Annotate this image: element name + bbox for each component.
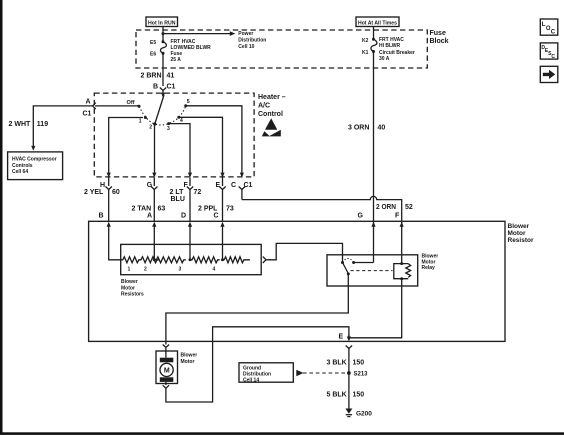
switch entry arrow at pin B — [161, 93, 165, 98]
svg-text:G: G — [358, 212, 364, 219]
svg-text:HVAC Compressor: HVAC Compressor — [12, 157, 57, 163]
svg-text:C: C — [551, 54, 555, 60]
svg-text:5: 5 — [187, 99, 190, 105]
svg-text:C: C — [231, 182, 236, 189]
svg-text:Hot In RUN: Hot In RUN — [148, 20, 176, 26]
fan switch contact 2 (wiper) — [153, 122, 156, 125]
svg-text:F: F — [395, 212, 400, 219]
svg-text:K2: K2 — [362, 38, 369, 44]
svg-text:M: M — [164, 368, 170, 375]
svg-text:Motor: Motor — [508, 230, 527, 237]
wire 2 YEL 60 pin H to resistor pin B — [108, 178, 110, 187]
relay blade — [343, 263, 349, 274]
svg-text:60: 60 — [112, 189, 120, 196]
svg-text:Cell 10: Cell 10 — [238, 44, 254, 50]
motor brush top — [160, 358, 174, 363]
resistor pack box — [121, 244, 262, 274]
svg-text:Resistor: Resistor — [508, 237, 534, 244]
svg-text:5 BLK: 5 BLK — [327, 392, 347, 399]
icon box arrow — [540, 66, 558, 82]
svg-text:Blower: Blower — [181, 353, 198, 359]
svg-text:Hot At All Times: Hot At All Times — [358, 20, 397, 26]
svg-text:4: 4 — [213, 267, 216, 273]
blower motor box — [156, 351, 178, 384]
svg-text:C1: C1 — [167, 83, 176, 90]
svg-text:2: 2 — [149, 125, 152, 131]
wire contact4 to pin E — [179, 117, 223, 176]
svg-text:D: D — [181, 212, 186, 219]
svg-text:2 ORN: 2 ORN — [376, 204, 396, 211]
svg-text:63: 63 — [158, 206, 166, 213]
Hot In RUN label box — [146, 17, 178, 27]
svg-text:2 LT: 2 LT — [170, 189, 185, 196]
svg-text:B: B — [153, 83, 158, 90]
blower motor resistor box — [89, 221, 505, 341]
wire 2 ORN 52 pin C to relay pin F (with hop over ORN wire) — [241, 190, 243, 200]
wire pin A tap — [153, 226, 155, 260]
svg-text:C: C — [214, 212, 219, 219]
wire arrow to Power Distribution — [163, 33, 231, 35]
resistor chain R1-R4 — [121, 257, 159, 263]
fan switch contact Off — [138, 105, 141, 108]
svg-text:73: 73 — [226, 206, 234, 213]
wire motor return to E junction — [166, 327, 349, 402]
svg-text:Motor: Motor — [121, 285, 135, 291]
svg-text:Off: Off — [127, 100, 135, 106]
wiper travel dotted arc — [139, 106, 186, 125]
entry arrows at box top — [107, 222, 111, 227]
svg-text:3 BLK: 3 BLK — [327, 360, 347, 367]
arrows at heater box bottom edge — [107, 173, 111, 178]
relay fixed contact — [352, 261, 355, 264]
wire relay blade output to blower motor — [166, 274, 348, 345]
Hot At All Times label box — [356, 17, 399, 27]
svg-text:H: H — [100, 182, 105, 189]
motor brush bottom — [160, 377, 174, 382]
svg-text:1: 1 — [139, 119, 142, 125]
tap node A — [153, 258, 156, 261]
svg-text:2 BRN: 2 BRN — [141, 72, 162, 79]
wire 2 TAN 63 pin G to resistor pin A — [153, 178, 155, 187]
wire out of motor — [165, 382, 167, 385]
svg-text:Fuse: Fuse — [430, 30, 446, 37]
dashed link to ground distribution — [296, 370, 303, 376]
icon box DESC — [540, 43, 558, 59]
wire resistor output to relay common — [266, 243, 343, 261]
HVAC compressor controls box — [8, 152, 63, 180]
fuse block dashed box — [136, 30, 427, 68]
svg-text:2 YEL: 2 YEL — [84, 189, 104, 196]
svg-text:41: 41 — [167, 72, 175, 79]
relay coil — [394, 264, 411, 279]
svg-text:Relay: Relay — [422, 265, 436, 271]
svg-text:Control: Control — [258, 111, 283, 118]
svg-text:E5: E5 — [150, 40, 156, 46]
svg-text:B: B — [99, 212, 104, 219]
svg-text:3: 3 — [179, 267, 182, 273]
wire pin C tap — [222, 226, 224, 260]
relay contact throw arc (dotted) — [343, 259, 354, 263]
ground distribution box — [239, 363, 293, 382]
circuit breaker CB1 FRT HVAC HI BLWR 30A — [372, 38, 375, 41]
svg-text:72: 72 — [194, 189, 202, 196]
splice S213 — [347, 371, 351, 375]
wire Off contact to pin A — [95, 105, 139, 107]
svg-text:3: 3 — [167, 126, 170, 132]
svg-text:Distribution: Distribution — [238, 38, 266, 44]
svg-text:Resistors: Resistors — [121, 292, 144, 298]
svg-text:1: 1 — [128, 267, 131, 273]
heater A/C control dashed box — [94, 93, 254, 177]
svg-text:A: A — [86, 99, 91, 106]
wire 3 BLK 150 pin E to S213 — [346, 346, 352, 349]
svg-text:C1: C1 — [83, 111, 92, 118]
svg-text:C: C — [551, 30, 556, 36]
svg-text:G200: G200 — [356, 411, 372, 418]
fan switch contact 5 — [184, 104, 187, 107]
wire to circuit breaker — [373, 27, 375, 40]
svg-text:25 A: 25 A — [171, 57, 182, 63]
wire pin F to coil — [401, 221, 403, 263]
wire 2 LT BLU 72 pin F to resistor pin D — [189, 178, 191, 187]
wire contact3 to pin F — [169, 124, 190, 177]
wire 2 WHT 119 to HVAC compressor controls — [33, 106, 92, 147]
wire into motor — [163, 345, 169, 348]
svg-text:Cell 14: Cell 14 — [243, 377, 259, 383]
svg-text:150: 150 — [353, 392, 365, 399]
svg-text:Power: Power — [238, 31, 253, 37]
wire contact5 to pin C — [186, 106, 242, 177]
relay actuation dashed link — [351, 270, 393, 272]
svg-text:K1: K1 — [362, 50, 369, 56]
svg-text:C1: C1 — [244, 182, 253, 189]
ground G200 — [345, 409, 352, 414]
svg-text:BLU: BLU — [171, 196, 185, 203]
wire 2 PPL 73 pin E to resistor pin C — [222, 178, 224, 187]
fan switch contact 3 — [167, 122, 170, 125]
svg-text:30 A: 30 A — [379, 56, 390, 62]
svg-text:S213: S213 — [354, 372, 369, 378]
tap node C — [221, 258, 224, 261]
svg-text:Cell 64: Cell 64 — [12, 169, 28, 175]
wire fixed contact to pin G — [354, 262, 374, 264]
scan border bottom line — [0, 432, 564, 435]
relay common pivot — [341, 261, 344, 264]
wire contact2 to pin G — [154, 124, 156, 177]
motor M circle — [160, 363, 173, 376]
wire fuse to heater control (2 BRN 41) — [162, 53, 164, 86]
wire pin B to resistor chain — [109, 226, 121, 260]
svg-text:40: 40 — [378, 125, 386, 132]
svg-text:Blower: Blower — [508, 223, 530, 230]
ESD symbol — [265, 118, 277, 129]
svg-text:HI BLWR: HI BLWR — [379, 43, 400, 49]
svg-text:Block: Block — [430, 38, 449, 45]
wire pin D tap — [189, 226, 191, 260]
wire 5 BLK 150 S213 to G200 — [348, 373, 350, 409]
svg-text:2 WHT: 2 WHT — [9, 121, 32, 128]
icon box LOC — [540, 19, 558, 35]
pin E exit arrow at box bottom — [348, 334, 350, 337]
svg-text:Controls: Controls — [12, 163, 33, 169]
wire Hot In RUN to fuse — [162, 27, 164, 42]
svg-text:Heater –: Heater – — [258, 94, 286, 101]
svg-text:Blower: Blower — [121, 279, 138, 285]
svg-text:52: 52 — [405, 204, 413, 211]
chain exit chevron — [263, 257, 266, 263]
tap node D — [189, 258, 192, 261]
fan switch contact 1 — [144, 116, 147, 119]
connector chevrons below letters — [106, 187, 112, 190]
svg-text:3 ORN: 3 ORN — [348, 125, 369, 132]
scan border left bar — [0, 0, 3, 433]
wire 3 ORN 40 breaker to blower resistor pin G — [373, 52, 375, 222]
svg-text:150: 150 — [353, 360, 365, 367]
svg-text:E6: E6 — [150, 51, 156, 57]
connector chevron — [160, 88, 166, 91]
svg-text:E: E — [339, 334, 344, 341]
svg-text:A: A — [147, 212, 152, 219]
node junction at fuse top — [162, 32, 165, 35]
wire coil to E junction — [349, 279, 402, 338]
svg-text:119: 119 — [37, 121, 48, 128]
wire contact1 to pin H — [109, 118, 143, 177]
fan switch contact 4 — [177, 116, 180, 119]
svg-text:2: 2 — [144, 267, 147, 273]
blower motor relay box — [327, 255, 418, 286]
svg-text:Motor: Motor — [181, 359, 195, 365]
svg-text:A/C: A/C — [258, 103, 270, 110]
switch wiper blade — [155, 95, 164, 124]
fuse F1 FRT HVAC LOW/MED BLWR 25A — [162, 40, 165, 43]
